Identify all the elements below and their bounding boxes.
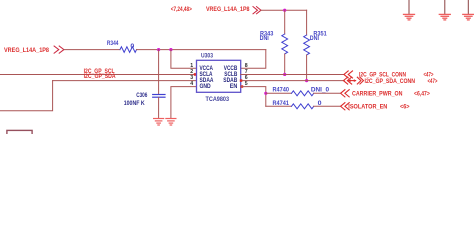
off-page connector ISOLATOR_EN chevrons [341, 103, 350, 110]
svg-text:<6>: <6> [400, 103, 410, 110]
svg-text:EN: EN [230, 83, 238, 90]
resistor R351 [304, 35, 310, 55]
ground symbol top right 3 [463, 0, 474, 20]
resistor R343 [282, 34, 288, 54]
svg-text:R344: R344 [107, 40, 119, 47]
wire GND pin trace [171, 87, 197, 119]
ground symbol top right 2 [439, 0, 450, 20]
wire net I2C_GP_SCL_CONN [241, 73, 344, 75]
wire R343 bottom lead [284, 54, 286, 74]
wire EN to R4740 [266, 92, 292, 94]
red terminal dot pin 5 EN [241, 85, 244, 88]
junction dot C306 branch [157, 48, 160, 51]
wire net I2C_GP_SDA entry jog [0, 81, 53, 111]
IC U303 body [197, 60, 241, 92]
resistor R4740 [292, 91, 314, 96]
svg-text:2: 2 [190, 69, 193, 75]
wire R4741 to connector [314, 105, 341, 107]
wire R351 bottom lead [306, 55, 308, 81]
svg-text:VREG_L14A_1P8: VREG_L14A_1P8 [206, 6, 250, 13]
svg-text:CARRIER_PWR_ON: CARRIER_PWR_ON [352, 91, 403, 98]
svg-text:VREG_L14A_1P8: VREG_L14A_1P8 [4, 47, 50, 54]
resistor R344 [120, 47, 137, 53]
wire left connector to R344 [64, 49, 120, 51]
ground under C306 [154, 119, 164, 126]
wire EN to R4741 [266, 105, 292, 107]
svg-text:R4740: R4740 [273, 87, 290, 94]
wire VCCB feed down into pin 8 [241, 50, 266, 69]
wire R344 output rail [137, 49, 266, 51]
svg-text:DNI_0: DNI_0 [311, 87, 330, 94]
svg-text:0: 0 [130, 43, 135, 50]
junction dot EN branch [264, 92, 267, 95]
bidirectional arrowheads [348, 79, 351, 82]
svg-text:<7,24,48>: <7,24,48> [171, 6, 192, 13]
wire net I2C_GP_SDA_CONN [241, 80, 345, 82]
partial symbol box bottom left [7, 130, 32, 136]
wire VCCA feed down into pin 1 [171, 50, 197, 69]
red terminal dot pin 6 [240, 79, 243, 82]
svg-text:I2C_GP_SDA: I2C_GP_SDA [84, 73, 117, 80]
svg-text:DNI: DNI [310, 35, 319, 42]
ground symbol top right 1 [404, 0, 415, 20]
off-page connector I2C_GP_SDA_CONN bidirectional symbol [343, 77, 363, 84]
svg-text:U303: U303 [201, 52, 213, 59]
svg-text:<6,47>: <6,47> [414, 91, 430, 98]
ground under GND pin [166, 119, 176, 126]
red terminal dot pin 2 [194, 73, 197, 76]
svg-text:DNI: DNI [260, 35, 269, 42]
wire net I2C_GP_SCL [0, 73, 197, 75]
svg-text:C306: C306 [136, 92, 148, 99]
wire net I2C_GP_SDA [53, 80, 197, 82]
svg-text:100NF K: 100NF K [124, 100, 146, 107]
wire C306 bottom lead [158, 98, 160, 119]
off-page connector I2C_GP_SCL_CONN chevrons [344, 71, 353, 78]
svg-text:<47>: <47> [428, 78, 438, 85]
wire R4740 to connector [314, 92, 341, 94]
svg-text:TCA9803: TCA9803 [206, 96, 230, 103]
resistor R4741 [292, 104, 314, 109]
wire R351 top lead with corner [306, 10, 308, 35]
svg-text:I2C_GP_SDA_CONN: I2C_GP_SDA_CONN [365, 78, 416, 85]
off-page connector VREG_L14A_1P8 left chevrons [54, 46, 64, 53]
capacitor C306 [153, 95, 165, 98]
svg-text:GND: GND [200, 83, 212, 90]
wire EN jog down [241, 87, 266, 107]
svg-text:R4741: R4741 [273, 100, 290, 107]
off-page connector CARRIER_PWR_ON chevrons [341, 90, 350, 97]
wire R343 top lead [284, 10, 286, 34]
junction dot R343 on SCLB wire [283, 73, 286, 76]
junction dot VCCA branch [169, 48, 172, 51]
off-page connector VREG_L14A_1P8 top chevrons [253, 7, 261, 14]
junction dot R351 on SDAB wire [305, 79, 308, 82]
junction dot top rail at R343 [283, 9, 286, 12]
svg-text:ISOLATOR_EN: ISOLATOR_EN [348, 103, 387, 110]
wire C306 top lead [158, 50, 160, 94]
wire top rail [261, 9, 307, 11]
